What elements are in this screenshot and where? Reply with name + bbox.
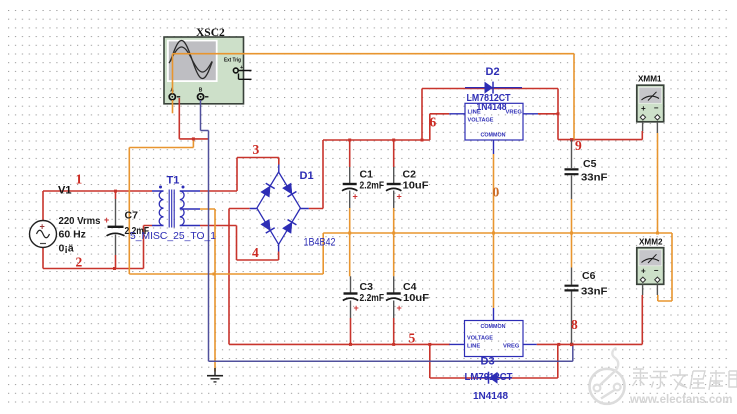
wire COMMON column node 0: [493, 154, 495, 308]
svg-text:2: 2: [76, 255, 83, 270]
svg-text:1B4B42: 1B4B42: [304, 237, 336, 249]
svg-text:XMM2: XMM2: [639, 237, 663, 247]
junction C2 node 6 bus: [392, 139, 395, 142]
svg-text:+: +: [40, 222, 45, 232]
wire A- to ground bus: [129, 139, 193, 274]
svg-text:0: 0: [493, 185, 500, 200]
wire node 4 secondary bottom to bridge: [200, 226, 279, 261]
svg-text:−: −: [654, 266, 659, 275]
oscilloscope XSC2: [164, 37, 252, 104]
diode TR: [282, 183, 296, 197]
wire center tap to ground: [200, 209, 215, 372]
wire scope A+ to node 9 (orange): [173, 54, 575, 140]
capacitor C6: [565, 268, 579, 344]
wire node 6 step to regulator input: [430, 114, 450, 140]
svg-text:C6: C6: [582, 270, 596, 282]
svg-text:D1: D1: [300, 170, 314, 182]
bridge rectifier D1: [250, 165, 309, 252]
svg-text:Ext Trig: Ext Trig: [224, 58, 241, 64]
regulator U1 LM7812CT box: [449, 103, 538, 154]
wire node 9 line to XMM1: [558, 131, 642, 140]
wire bottom rail node 5: [229, 343, 450, 345]
svg-text:+: +: [397, 303, 402, 313]
junction scope A- ground drop: [192, 137, 195, 140]
wire V1 left top: [42, 191, 44, 221]
wire C2 top lead: [393, 140, 395, 167]
wire scope A+ lower stub: [172, 100, 174, 113]
wire V1 top (node 1): [43, 190, 152, 192]
wire scope A- stub: [179, 98, 208, 139]
wire XMM1 minus down to bus: [657, 133, 659, 233]
multimeter XMM2: [637, 248, 664, 295]
wire scope B to node 8 (dark blue): [201, 100, 573, 361]
svg-text:B: B: [199, 88, 203, 94]
svg-text:2.2mF: 2.2mF: [360, 180, 385, 192]
wire node 8 U2 output to XMM2: [537, 295, 643, 344]
multimeter XMM1: [637, 85, 664, 133]
svg-text:9: 9: [575, 138, 582, 153]
junction C1 node 6 bus: [348, 139, 351, 142]
wire C3 bottom lead: [350, 318, 352, 344]
junction D2 tap node 6 bus: [421, 139, 424, 142]
capacitor C3: [343, 276, 359, 318]
svg-text:C5: C5: [583, 158, 597, 170]
terminal Ext Trig: [233, 68, 238, 73]
svg-text:0¡ä: 0¡ä: [59, 243, 74, 255]
wire primary bottom: [144, 226, 153, 269]
wire D2 bypass loop: [422, 89, 558, 141]
svg-text:XMM1: XMM1: [638, 74, 662, 84]
svg-text:www.elecfans.com: www.elecfans.com: [629, 394, 732, 406]
svg-text:+: +: [354, 303, 359, 313]
diode TL: [261, 183, 275, 197]
svg-text:5: 5: [409, 331, 416, 346]
svg-text:+: +: [397, 192, 402, 202]
capacitor C1: [342, 167, 358, 208]
wire U1 output to step: [538, 113, 558, 115]
svg-text:+: +: [353, 192, 358, 202]
diode BR: [282, 220, 296, 234]
svg-text:+: +: [104, 215, 109, 225]
wire ground bus tail to XMM2: [658, 233, 672, 301]
wire V1 bottom (node 2): [43, 268, 144, 270]
wire ground bus right (node 0): [323, 232, 672, 234]
svg-text:VREG: VREG: [503, 344, 520, 350]
junction C1-C3 column node 0 bus: [348, 232, 351, 235]
wire top bus node 6: [323, 139, 430, 141]
junction C2-C4 column node 0 bus: [392, 232, 395, 235]
transformer T1: [152, 186, 200, 228]
svg-text:6: 6: [430, 115, 437, 130]
svg-text:+: +: [240, 65, 243, 71]
svg-text:33nF: 33nF: [581, 286, 608, 298]
capacitor C7: [104, 199, 125, 255]
svg-text:LM7912CT: LM7912CT: [465, 371, 514, 383]
svg-text:220 Vrms: 220 Vrms: [59, 215, 101, 227]
svg-text:COMMON: COMMON: [481, 133, 506, 139]
wire C4 bottom lead: [393, 318, 395, 344]
svg-text:LINE: LINE: [468, 110, 481, 116]
svg-text:VOLTAGE: VOLTAGE: [468, 118, 494, 124]
svg-text:10uF: 10uF: [403, 180, 430, 192]
wire node 3 secondary top to bridge: [200, 158, 279, 192]
svg-text:D2: D2: [486, 66, 500, 78]
diode D2: [465, 82, 522, 94]
junction C7 bottom node 2: [113, 267, 116, 270]
junction C7 top node 1: [114, 190, 117, 193]
wire C5-C6 column: [571, 199, 573, 268]
junction C5/scope-A node 9: [570, 138, 573, 141]
svg-text:3: 3: [253, 142, 260, 157]
wire C1 top lead: [349, 140, 351, 167]
svg-text:1N4148: 1N4148: [473, 391, 508, 402]
diode D3: [477, 372, 512, 384]
svg-text:8: 8: [571, 317, 578, 332]
svg-text:−: −: [654, 103, 659, 112]
junction D3 tap node 5 rail: [428, 343, 431, 346]
svg-text:4: 4: [252, 245, 259, 260]
junction C3 node 5 rail: [349, 343, 352, 346]
svg-text:C7: C7: [125, 210, 139, 222]
wire C7 top branch: [115, 191, 117, 199]
capacitor C4: [386, 276, 402, 318]
capacitor C5: [565, 140, 579, 199]
svg-text:V1: V1: [58, 185, 71, 197]
svg-text:+: +: [641, 266, 646, 275]
junction U1 output D2: [557, 112, 560, 115]
junction COMMON column node 0 bus: [492, 232, 495, 235]
svg-text:VREG: VREG: [506, 110, 523, 116]
WATERMARK: [590, 348, 737, 406]
svg-text:10uF: 10uF: [403, 292, 430, 304]
svg-text:+: +: [641, 104, 646, 113]
junction D3 right node 8: [557, 343, 560, 346]
diode BL: [261, 219, 275, 233]
svg-text:COMMON: COMMON: [481, 324, 506, 330]
junction center tap ground bus: [213, 273, 216, 276]
wire D3 bypass loop: [430, 344, 558, 378]
svg-text:LINE: LINE: [467, 344, 480, 350]
junction C5-C6 column node 0 bus: [570, 232, 573, 235]
svg-text:5_MISC_25_TO_1: 5_MISC_25_TO_1: [130, 230, 216, 242]
svg-text:D3: D3: [481, 356, 495, 368]
ground: [207, 368, 223, 382]
svg-text:VOLTAGE: VOLTAGE: [467, 336, 493, 342]
wire V1 left bottom: [42, 248, 44, 269]
svg-text:60 Hz: 60 Hz: [59, 229, 86, 241]
svg-text:XSC2: XSC2: [196, 27, 225, 39]
wire C2-C4 column: [393, 208, 395, 276]
junction C4 node 5 rail: [392, 343, 395, 346]
wire C1-C3 column: [349, 208, 351, 276]
svg-text:T1: T1: [167, 175, 180, 187]
svg-text:1: 1: [76, 172, 83, 187]
svg-text:2.2mF: 2.2mF: [360, 292, 385, 304]
junction C6/scope-B node 8: [570, 343, 573, 346]
junction XMM1 minus node 0 bus: [656, 232, 659, 235]
wire C7 bottom branch: [115, 255, 117, 269]
wire bridge left output down: [229, 209, 250, 345]
wire ground bus jog: [322, 233, 324, 274]
regulator U2 LM7912CT box: [449, 308, 536, 357]
svg-text:1N4148: 1N4148: [477, 102, 507, 113]
wire bridge right output up: [309, 140, 323, 209]
source V1: [30, 221, 57, 248]
svg-text:33nF: 33nF: [581, 172, 608, 184]
capacitor C2: [386, 167, 402, 208]
wire ground bus left (node 0): [129, 273, 323, 275]
